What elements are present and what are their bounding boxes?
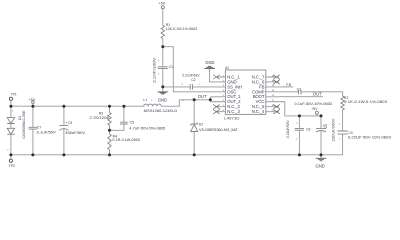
svg-text:N.C._4: N.C._4 <box>252 109 265 114</box>
svg-text:TP2: TP2 <box>9 164 15 168</box>
svg-text:GND: GND <box>205 60 214 65</box>
svg-text:0.22uF/63V: 0.22uF/63V <box>286 120 290 138</box>
svg-text:0.1R-0.1W-0603: 0.1R-0.1W-0603 <box>112 138 140 142</box>
svg-text:+5V: +5V <box>159 2 166 6</box>
svg-text:330uF/50V: 330uF/50V <box>65 131 86 135</box>
svg-text:+5V: +5V <box>311 107 318 111</box>
svg-text:0.1uF/50V: 0.1uF/50V <box>37 130 57 134</box>
svg-text:C7: C7 <box>37 126 41 130</box>
svg-text:+5V: +5V <box>29 98 36 102</box>
svg-text:GND: GND <box>158 98 167 103</box>
svg-text:U2: U2 <box>225 66 229 70</box>
svg-text:C8: C8 <box>306 128 310 132</box>
svg-text:MSS1260-124KLD: MSS1260-124KLD <box>144 109 178 113</box>
svg-text:CG0603MLC-05E: CG0603MLC-05E <box>22 110 26 139</box>
svg-text:C6: C6 <box>324 124 328 128</box>
svg-text:2.7K/1206: 2.7K/1206 <box>89 116 109 120</box>
svg-text:OUT: OUT <box>198 94 207 99</box>
svg-text:L4971D: L4971D <box>224 116 239 121</box>
svg-text:N.C._3: N.C._3 <box>227 109 240 114</box>
svg-text:0.1uF-50V-10%-0603: 0.1uF-50V-10%-0603 <box>295 102 333 106</box>
svg-text:220uF/100V: 220uF/100V <box>331 118 335 142</box>
svg-text:OUT: OUT <box>313 92 322 97</box>
svg-text:GND: GND <box>316 163 325 168</box>
svg-text:2.2nF/100V: 2.2nF/100V <box>152 57 156 83</box>
svg-text:0.22UF 50V 10% 0603: 0.22UF 50V 10% 0603 <box>348 135 391 139</box>
svg-text:D2: D2 <box>199 123 203 127</box>
svg-text:12K-0.1W-1%-0603: 12K-0.1W-1%-0603 <box>166 27 198 31</box>
svg-text:C5: C5 <box>130 121 134 125</box>
svg-text:9.1K-0.1W-0.1%-0603: 9.1K-0.1W-0.1%-0603 <box>344 100 387 104</box>
svg-text:C2: C2 <box>191 78 195 82</box>
svg-text:C3: C3 <box>297 87 301 91</box>
svg-text:C1: C1 <box>169 65 173 69</box>
svg-text:TP1: TP1 <box>11 93 17 97</box>
svg-text:L1: L1 <box>143 98 147 102</box>
svg-text:F.B: F.B <box>286 83 292 87</box>
svg-text:4.7uF-50V-5%-0805: 4.7uF-50V-5%-0805 <box>129 126 165 130</box>
svg-text:C4: C4 <box>68 121 72 125</box>
svg-text:VS-MBRS360-M3_9AT: VS-MBRS360-M3_9AT <box>199 128 239 132</box>
svg-text:0.22uF/63V: 0.22uF/63V <box>182 73 200 77</box>
